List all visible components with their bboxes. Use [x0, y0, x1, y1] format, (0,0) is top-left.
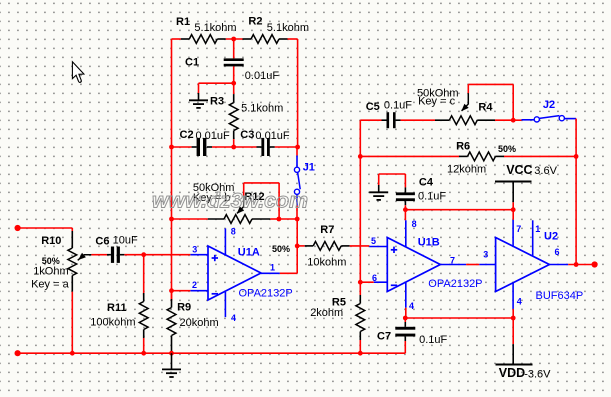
label R10 [41, 235, 61, 247]
value C1 [245, 70, 280, 82]
wire [172, 218, 208, 220]
value C6 [113, 235, 138, 247]
value R10 percent [42, 256, 60, 266]
svg-text:OPA2132P: OPA2132P [428, 278, 482, 290]
wire [171, 291, 173, 299]
svg-text:4: 4 [409, 301, 414, 311]
wire pin 8 stub [224, 228, 226, 255]
value R7 [307, 257, 346, 269]
svg-text:7: 7 [450, 256, 455, 266]
svg-text:Key = a: Key = a [31, 279, 69, 291]
ground [162, 353, 181, 377]
value R5 [310, 307, 343, 319]
svg-text:R11: R11 [107, 302, 127, 314]
value R2 [267, 22, 309, 34]
svg-text:3.6V: 3.6V [534, 165, 557, 177]
svg-text:6: 6 [555, 247, 560, 257]
potentiometer R10 [68, 231, 92, 292]
value R10 ohms [33, 266, 68, 278]
wire [405, 317, 513, 319]
value R6 [447, 163, 486, 175]
value R11 [90, 316, 135, 328]
wire [199, 83, 234, 93]
svg-text:R1: R1 [176, 16, 190, 28]
wire [495, 119, 513, 121]
wire feedback vertical [359, 120, 361, 282]
ground [189, 93, 208, 108]
svg-text:3: 3 [483, 249, 488, 259]
wire [466, 264, 479, 266]
resistor R3 [229, 94, 238, 139]
label R6 [456, 141, 470, 153]
wire [18, 227, 73, 229]
wire [350, 245, 370, 247]
wire [512, 309, 514, 318]
wire [513, 119, 521, 121]
wire [297, 245, 305, 247]
wire wiper loop [468, 84, 513, 120]
svg-text:R3: R3 [210, 96, 224, 108]
wire [504, 155, 576, 157]
wire [404, 205, 406, 210]
wire pin 1 stub [532, 220, 534, 256]
wire [379, 174, 406, 187]
value C4 [418, 190, 446, 202]
svg-text:5.1kohm: 5.1kohm [267, 22, 309, 34]
wire [172, 146, 192, 148]
svg-text:100kohm: 100kohm [90, 316, 135, 328]
svg-text:2: 2 [192, 280, 197, 290]
wire [404, 341, 407, 353]
node junction [141, 351, 146, 356]
resistor R9 [167, 299, 176, 344]
svg-text:U1A: U1A [238, 246, 260, 258]
node junction [403, 207, 408, 212]
node junction [70, 351, 75, 356]
capacitor C4 [396, 187, 415, 205]
node junction [169, 351, 174, 356]
wire [275, 146, 298, 148]
wire [279, 218, 297, 220]
value R6 percent [498, 144, 516, 154]
wire [233, 39, 235, 58]
svg-text:R10: R10 [41, 235, 61, 247]
wire wiper loop [244, 183, 279, 219]
node junction [277, 217, 282, 222]
wire [91, 254, 107, 256]
wire [172, 38, 181, 40]
node junction [231, 145, 236, 150]
svg-text:J2: J2 [543, 99, 555, 111]
watermark [152, 190, 308, 213]
value U1A [239, 288, 293, 300]
capacitor C1 [224, 58, 244, 66]
svg-text:5.1kohm: 5.1kohm [194, 22, 236, 34]
wire [296, 219, 298, 273]
node input terminal [15, 225, 21, 231]
label R3 [210, 96, 224, 108]
svg-text:0.01uF: 0.01uF [255, 130, 290, 142]
power VCC [495, 182, 532, 203]
wire [71, 228, 73, 231]
resistor R1 [181, 35, 226, 44]
label J1 [303, 162, 315, 174]
wire bottom rail [18, 352, 405, 354]
pin 8 U1A [231, 227, 236, 237]
svg-text:C6: C6 [95, 236, 109, 248]
pin 3 U1A [192, 245, 197, 255]
wire [405, 209, 513, 211]
label R7 [320, 224, 334, 236]
potentiometer R12 [208, 196, 270, 224]
svg-text:C2: C2 [180, 129, 194, 141]
value U2 [536, 290, 584, 302]
wire left vertical [171, 39, 173, 301]
svg-text:R6: R6 [456, 141, 470, 153]
svg-text:VDD: VDD [499, 366, 525, 380]
svg-text:50%: 50% [42, 256, 60, 266]
switch J1 [294, 156, 300, 206]
capacitor C3 [257, 138, 275, 156]
resistor R5 [356, 295, 365, 340]
node junction [231, 81, 236, 86]
value R12 percent [272, 244, 290, 254]
node junction [231, 37, 236, 42]
label R11 [107, 302, 127, 314]
wire pin 6 [549, 264, 568, 266]
pin 4 U2 [517, 297, 522, 307]
svg-text:C5: C5 [366, 101, 380, 113]
value R4 ohms [417, 87, 459, 99]
value C7 [419, 334, 447, 346]
svg-text:5.1kohm: 5.1kohm [241, 103, 283, 115]
svg-text:2kohm: 2kohm [310, 307, 343, 319]
node junction [574, 154, 579, 159]
label J2 [543, 99, 555, 111]
svg-text:0.1uF: 0.1uF [418, 190, 446, 202]
node output terminal [592, 261, 598, 267]
wire [360, 155, 459, 157]
svg-text:0.1uF: 0.1uF [419, 334, 447, 346]
wire right vertical [297, 39, 299, 147]
value VCC [534, 165, 557, 177]
wire pin 3 [190, 254, 208, 256]
wire [360, 281, 374, 283]
label C1 [185, 57, 199, 69]
wire [280, 272, 297, 274]
capacitor C5 [382, 112, 401, 128]
wire [233, 83, 235, 94]
pin 6 U2 [555, 247, 560, 257]
svg-text:Key = c: Key = c [418, 96, 455, 108]
pin 6 U1B [372, 273, 377, 283]
label U1B [418, 237, 440, 249]
wire right vertical [575, 119, 577, 265]
label U1A [238, 246, 260, 258]
pin 1 U1A [270, 263, 275, 273]
capacitor C7 [395, 322, 415, 341]
svg-text:8: 8 [412, 219, 417, 229]
wire [568, 264, 594, 266]
pin 7 U1B [450, 256, 455, 266]
node junction [295, 145, 300, 150]
label C3 [240, 129, 254, 141]
wire [405, 308, 407, 318]
label C7 [377, 331, 391, 343]
label R9 [177, 302, 191, 314]
node junction [358, 351, 363, 356]
svg-text:1: 1 [270, 263, 275, 273]
svg-text:50%: 50% [498, 144, 516, 154]
svg-text:-3.6V: -3.6V [524, 368, 551, 380]
node junction [511, 316, 516, 321]
value R3 [241, 103, 283, 115]
node junction [169, 145, 174, 150]
ground [369, 185, 388, 200]
value R12 ohms [193, 182, 235, 194]
potentiometer R4 [435, 93, 495, 125]
pin 5 U1B [371, 236, 376, 246]
svg-text:4: 4 [517, 297, 522, 307]
label R5 [332, 297, 346, 309]
svg-text:0.01uF: 0.01uF [196, 130, 231, 142]
svg-text:5: 5 [371, 236, 376, 246]
label C6 [95, 236, 109, 248]
node junction [358, 154, 363, 159]
wire pin 8 [405, 220, 407, 247]
wire [212, 146, 234, 148]
svg-text:R4: R4 [478, 102, 493, 114]
wire [71, 292, 73, 354]
svg-text:0.1uF: 0.1uF [384, 99, 412, 111]
svg-text:C3: C3 [240, 129, 254, 141]
label C5 [366, 101, 380, 113]
svg-text:OPA2132P: OPA2132P [239, 288, 293, 300]
svg-text:J1: J1 [303, 162, 315, 174]
resistor R2 [243, 35, 288, 44]
wire pin 4 stub [512, 283, 514, 309]
value R10 key [31, 279, 69, 291]
wire [172, 290, 191, 292]
svg-text:R2: R2 [248, 16, 262, 28]
wire pin 2 [190, 290, 208, 292]
pin 2 U1A [192, 280, 197, 290]
svg-text:20kohm: 20kohm [180, 317, 219, 329]
power VDD [496, 344, 533, 364]
value R9 [180, 317, 219, 329]
wire pin 4 stub [224, 292, 226, 317]
pin 4 U1A [231, 313, 236, 323]
label C2 [180, 129, 194, 141]
value R12 key [193, 192, 231, 204]
wire [233, 66, 235, 83]
svg-text:12kohm: 12kohm [447, 163, 486, 175]
svg-text:0.01uF: 0.01uF [245, 70, 280, 82]
svg-text:BUF634P: BUF634P [536, 290, 584, 302]
svg-text:R7: R7 [320, 224, 334, 236]
node junction [295, 244, 300, 249]
label U2 [544, 231, 558, 243]
svg-text:R9: R9 [177, 302, 191, 314]
wire [234, 146, 257, 148]
label VCC [506, 163, 532, 177]
svg-text:50%: 50% [272, 244, 290, 254]
svg-text:1kOhm: 1kOhm [33, 266, 68, 278]
svg-text:www.dz3w.com: www.dz3w.com [152, 190, 308, 213]
node input terminal [15, 350, 21, 356]
label VDD [499, 366, 525, 380]
capacitor C2 [192, 138, 212, 156]
wire [404, 210, 406, 221]
wire [143, 255, 145, 296]
op-amp U1A [208, 246, 261, 300]
wire [143, 338, 145, 353]
wire pin 5 [369, 246, 387, 248]
svg-text:6: 6 [372, 273, 377, 283]
wire [512, 210, 514, 220]
svg-text:3: 3 [192, 245, 197, 255]
wire [124, 254, 143, 256]
svg-text:10uF: 10uF [113, 235, 138, 247]
wire [404, 318, 406, 322]
wire [360, 119, 381, 121]
wire pin 7 stub [512, 220, 514, 247]
value C5 [384, 99, 412, 111]
wire [359, 282, 361, 295]
svg-text:C1: C1 [185, 57, 199, 69]
capacitor C6 [107, 247, 124, 263]
node junction [169, 288, 174, 293]
op-amp U1B [387, 238, 440, 292]
svg-text:7: 7 [516, 224, 521, 234]
node junction [574, 262, 579, 267]
label R1 [176, 16, 190, 28]
wire [401, 119, 435, 121]
wire [233, 139, 235, 147]
svg-text:C4: C4 [419, 177, 434, 189]
pin 1 U2 [535, 224, 540, 234]
buffer U2 [496, 238, 550, 292]
wire pin 1 [261, 272, 280, 274]
svg-text:4: 4 [231, 313, 236, 323]
node junction [169, 217, 174, 222]
value U1B [428, 278, 482, 290]
node junction [403, 316, 408, 321]
node junction [358, 280, 363, 285]
wire [270, 218, 279, 220]
resistor R11 [139, 293, 148, 338]
node junction [141, 252, 146, 257]
svg-text:C7: C7 [377, 331, 391, 343]
node junction [511, 207, 516, 212]
label R12 [244, 191, 264, 203]
value C3 [255, 130, 290, 142]
value C2 [196, 130, 231, 142]
wire [359, 340, 361, 353]
pin 3 U2 [483, 249, 488, 259]
wire pin 3 [479, 264, 495, 266]
node junction [295, 217, 300, 222]
node junction [511, 118, 516, 123]
wire [512, 202, 514, 209]
svg-text:VCC: VCC [506, 163, 532, 177]
svg-text:U2: U2 [544, 231, 558, 243]
wire [296, 206, 298, 219]
wire [144, 254, 191, 256]
pin 4 U1B [409, 301, 414, 311]
label R4 [478, 102, 493, 114]
label R2 [248, 16, 262, 28]
pin 7 U2 [516, 224, 521, 234]
wire pin 7 [440, 264, 466, 266]
resistor R7 [305, 242, 350, 251]
resistor R6 [459, 152, 504, 161]
wire pin 6 [374, 281, 388, 283]
wire [288, 38, 298, 40]
wire [512, 318, 514, 344]
svg-text:8: 8 [231, 227, 236, 237]
svg-text:U1B: U1B [418, 237, 440, 249]
wire [296, 147, 298, 156]
wire [226, 38, 243, 40]
wire [171, 344, 173, 353]
mouse cursor [72, 62, 84, 83]
svg-text:10kohm: 10kohm [307, 257, 346, 269]
pin 8 U1B [412, 219, 417, 229]
svg-text:1: 1 [535, 224, 540, 234]
value VDD [524, 368, 551, 380]
value R1 [194, 22, 236, 34]
value R4 key [418, 96, 455, 108]
label C4 [419, 177, 434, 189]
switch J2 [522, 116, 577, 122]
wire pin 4 [405, 283, 407, 308]
